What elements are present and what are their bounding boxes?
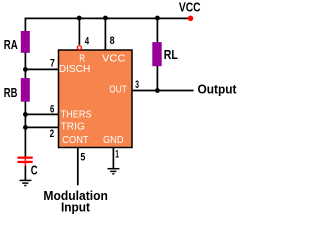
capacitor C red lead stubs <box>25 159 27 161</box>
wire top VCC rail <box>25 17 190 19</box>
svg-text:5: 5 <box>80 152 85 164</box>
node junction pin 6 <box>23 112 28 117</box>
svg-text:DISCH: DISCH <box>59 64 91 75</box>
wire pin 4 reset drop <box>78 18 80 45</box>
pin 4 active-low reset bubble <box>77 46 81 50</box>
wire pin 3 output <box>133 90 194 92</box>
svg-text:RA: RA <box>4 37 18 52</box>
node junction pin 8 top <box>103 16 108 21</box>
svg-text:7: 7 <box>50 58 55 70</box>
resistor RB <box>21 78 30 102</box>
wire RA top leg <box>24 18 26 32</box>
node junction RL top <box>155 16 160 21</box>
svg-text:6: 6 <box>50 104 54 116</box>
svg-text:VCC: VCC <box>179 0 201 15</box>
svg-text:GND: GND <box>103 135 124 146</box>
node junction pin 7 <box>23 67 28 72</box>
resistor RA <box>21 31 30 53</box>
svg-text:VCC: VCC <box>102 54 126 65</box>
svg-text:1: 1 <box>115 149 119 161</box>
IC 555 timer body <box>59 50 133 148</box>
svg-text:8: 8 <box>110 35 115 47</box>
capacitor C plate bottom <box>18 161 33 163</box>
wire RL to output node <box>156 66 158 91</box>
wire pin 6 THERS <box>25 113 58 115</box>
node junction pin 2 <box>23 125 28 130</box>
svg-text:Output: Output <box>198 82 238 97</box>
svg-text:4: 4 <box>85 35 89 47</box>
resistor RL <box>152 42 161 66</box>
wire pin 8 VCC drop <box>104 18 106 50</box>
node junction output <box>155 88 160 93</box>
svg-text:CONT: CONT <box>62 135 88 146</box>
svg-text:RL: RL <box>164 47 178 62</box>
wire pin 2 TRIG <box>25 126 58 128</box>
node junction pin 4 top <box>77 16 82 21</box>
svg-text:TRIG: TRIG <box>61 122 86 133</box>
wire pin 1 GND drop <box>112 148 114 169</box>
wire capacitor to ground <box>24 166 26 180</box>
svg-text:Input: Input <box>61 199 91 214</box>
wire RB to capacitor <box>24 102 26 157</box>
capacitor C plate top <box>18 157 33 159</box>
svg-text:RB: RB <box>4 85 18 100</box>
svg-text:OUT: OUT <box>109 85 127 96</box>
wire RL top leg <box>156 18 158 43</box>
svg-text:THERS: THERS <box>61 110 92 121</box>
svg-text:3: 3 <box>135 79 139 91</box>
wire RA to RB <box>24 53 26 79</box>
svg-text:2: 2 <box>50 128 55 140</box>
svg-text:C: C <box>31 163 38 178</box>
ground under capacitor <box>20 180 32 185</box>
ground under pin 1 <box>108 169 120 174</box>
wire pin 5 CONT drop <box>77 148 79 186</box>
VCC terminal red dot <box>188 15 194 21</box>
wire pin 7 DISCH <box>25 68 58 70</box>
